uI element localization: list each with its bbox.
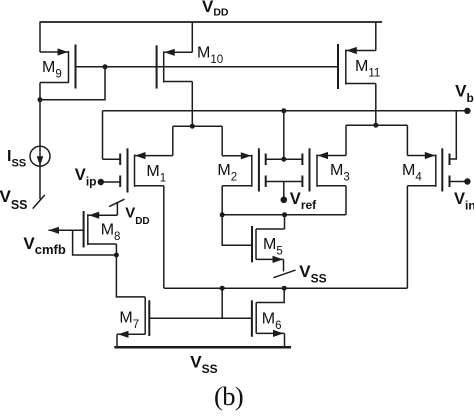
wire Vb bias rail bbox=[103, 110, 468, 112]
svg-text:Vref: Vref bbox=[290, 190, 317, 212]
wire Vcmfb gate wire bbox=[49, 229, 84, 231]
wire M11 source from VDD rail bbox=[375, 22, 377, 51]
svg-text:M4: M4 bbox=[402, 162, 422, 184]
node center stub junction bbox=[281, 157, 286, 162]
transistor M3 bbox=[302, 148, 346, 191]
wire M2-M3 drain tail line bbox=[222, 214, 346, 216]
transistor M4 bbox=[407, 148, 449, 191]
wire ISS top bbox=[39, 100, 41, 199]
wire M9 diode connection bbox=[40, 67, 105, 100]
wire M4 top stub to Vb bbox=[450, 111, 457, 159]
svg-text:VDD: VDD bbox=[125, 204, 149, 227]
wire M7 source down bbox=[116, 334, 118, 347]
transistor M11 bbox=[338, 44, 376, 89]
transistor M5 bbox=[252, 226, 285, 263]
node M5 drain junction bbox=[282, 212, 287, 217]
wire center Vb down to stubs bbox=[283, 111, 285, 159]
power rail VDD bbox=[40, 21, 383, 23]
svg-text:M6: M6 bbox=[262, 311, 282, 333]
supply slash VSS left bbox=[33, 195, 45, 209]
svg-text:M2: M2 bbox=[217, 162, 237, 184]
svg-text:ISS: ISS bbox=[7, 148, 26, 170]
wire tail down to M5 gate bbox=[222, 215, 252, 246]
svg-text:VSS: VSS bbox=[299, 262, 326, 286]
wire M3 drain down to tail bbox=[345, 186, 347, 215]
wire output node line bbox=[164, 287, 408, 289]
node M9 drain / ISS bbox=[38, 97, 43, 102]
wire M8 source down bbox=[116, 244, 145, 297]
wire M1 top input stub bbox=[103, 158, 121, 160]
wire M4 source up bbox=[406, 125, 408, 155]
wire M2 drain down bbox=[221, 186, 223, 215]
supply slash VSS M5 bbox=[273, 270, 295, 278]
wire M10 source from VDD rail bbox=[191, 22, 193, 52]
wire M1 drain down bbox=[163, 186, 165, 288]
svg-text:M3: M3 bbox=[330, 162, 350, 184]
svg-text:M10: M10 bbox=[197, 45, 223, 67]
svg-text:M8: M8 bbox=[101, 222, 121, 244]
svg-text:M9: M9 bbox=[42, 59, 62, 81]
node M10 drain junction bbox=[190, 124, 195, 129]
wire M3 source up bbox=[345, 125, 347, 155]
svg-text:Vcmfb: Vcmfb bbox=[23, 234, 65, 257]
svg-text:(b): (b) bbox=[214, 381, 243, 411]
wire M2 bottom stub to center bbox=[266, 181, 284, 183]
node mirror gate junction bbox=[103, 64, 108, 69]
wire Vcmfb branch to M8 source bbox=[73, 230, 117, 255]
wire M3 top stub to center bbox=[284, 158, 303, 160]
node Vb terminal bbox=[464, 108, 470, 114]
wire M3-M4 source node line bbox=[346, 124, 407, 126]
arrow Vcmfb bbox=[49, 227, 60, 234]
wire M5 source down bbox=[283, 259, 285, 271]
wire M9 source from VDD rail bbox=[39, 22, 41, 52]
wire M6-M7 gate line bbox=[149, 317, 252, 319]
svg-text:M11: M11 bbox=[355, 58, 380, 80]
node Vip terminal bbox=[98, 179, 104, 185]
wire mirror gate bias line bbox=[76, 66, 339, 68]
wire M1 source up bbox=[172, 126, 174, 155]
svg-text:VDD: VDD bbox=[202, 0, 229, 19]
wire M5 drain up bbox=[284, 215, 286, 229]
svg-text:M5: M5 bbox=[263, 236, 283, 258]
supply slash VDD M8 bbox=[109, 199, 124, 206]
svg-text:Vip: Vip bbox=[75, 166, 97, 189]
wire Vb rail left corner down bbox=[102, 111, 104, 159]
svg-text:VSS: VSS bbox=[0, 187, 28, 212]
wire M8 drain to VDD bbox=[116, 202, 118, 215]
transistor M2 bbox=[222, 148, 266, 191]
node tail left junction bbox=[220, 212, 225, 217]
wire M2 top stub to center bbox=[266, 158, 284, 160]
node Vb center junction bbox=[281, 108, 286, 113]
wire M2 source up bbox=[221, 126, 223, 156]
transistor M6 bbox=[252, 300, 285, 337]
wire M11 drain down bbox=[375, 84, 377, 125]
svg-text:Vb: Vb bbox=[455, 82, 474, 105]
wire Vref up to stubs bbox=[283, 182, 285, 200]
node Vin terminal bbox=[464, 178, 470, 184]
node Vref terminal bbox=[281, 197, 288, 204]
node output-M6 drain junction bbox=[282, 286, 287, 291]
wire M1-M2 source node line bbox=[173, 125, 222, 127]
node output-M7 gate junction bbox=[220, 286, 225, 291]
wire M6 drain up bbox=[256, 288, 284, 302]
svg-text:M1: M1 bbox=[146, 163, 166, 185]
transistor M9 bbox=[40, 45, 76, 89]
node M11 drain junction bbox=[373, 123, 378, 128]
transistor M10 bbox=[157, 45, 193, 88]
wire M3 bottom stub to center bbox=[284, 181, 303, 183]
wire M4 bottom stub to Vin bbox=[450, 181, 468, 183]
wire Vip to M1 stub bbox=[101, 181, 120, 183]
wire M9 drain down bbox=[39, 83, 41, 100]
svg-text:VSS: VSS bbox=[190, 353, 217, 376]
wire M6 source down bbox=[284, 333, 286, 347]
transistor M1 bbox=[120, 148, 173, 192]
transistor M7 bbox=[117, 297, 149, 338]
svg-text:M7: M7 bbox=[119, 310, 139, 332]
wire M4 drain down bbox=[406, 186, 408, 288]
current source ISS bbox=[30, 146, 50, 166]
power rail VSS bbox=[114, 346, 291, 349]
wire down to M6-M7 gate line bbox=[221, 288, 223, 318]
wire M10 drain down bbox=[191, 82, 193, 127]
node M8 source junction bbox=[114, 253, 119, 258]
transistor M8 bbox=[84, 211, 118, 248]
svg-text:Vin: Vin bbox=[454, 190, 474, 213]
